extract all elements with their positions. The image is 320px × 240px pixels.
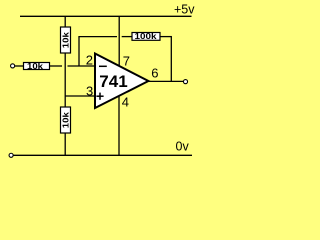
wire R3 to right corner — [160, 36, 172, 38]
wire feedback horizontal left of pin7 crossing — [78, 36, 117, 38]
wire feedback horizontal right of crossing to R3 — [122, 36, 133, 38]
resistor R4 10k (vertical, bottom) — [61, 107, 71, 133]
svg-text:7: 7 — [123, 53, 130, 68]
terminal input (top-left circle) — [11, 64, 15, 68]
op-amp U1 741 triangle — [95, 54, 148, 109]
wire feedback right vertical down to output — [170, 37, 172, 82]
op-amp minus sign (pin 2 inverting) — [99, 65, 107, 67]
resistor R2 10k (horizontal input) — [24, 62, 50, 71]
wire pin 4 vertical to 0v rail — [118, 96, 120, 156]
wire crossing to op-amp pin 2 — [68, 65, 95, 67]
svg-text:10k: 10k — [62, 112, 71, 129]
svg-text:10k: 10k — [62, 32, 71, 49]
svg-text:4: 4 — [122, 95, 129, 110]
resistor R3 100k (feedback) — [132, 32, 160, 41]
wire pin 7 vertical from +5v rail — [118, 16, 120, 66]
svg-text:2: 2 — [86, 53, 93, 68]
terminal ground (bottom-left circle) — [9, 153, 13, 157]
resistor R1 10k (vertical, top) — [61, 27, 71, 53]
svg-text:741: 741 — [99, 72, 127, 91]
terminal output (right circle) — [183, 80, 187, 84]
svg-text:6: 6 — [151, 66, 158, 81]
op-amp plus sign (pin 3 non-inverting) — [96, 95, 103, 97]
wire output from op-amp to terminal — [148, 80, 183, 82]
wire pin 3 from divider — [65, 95, 95, 97]
wire 0v bottom rail — [13, 154, 192, 156]
wire input terminal to R2 — [15, 65, 24, 67]
wire feedback left vertical — [78, 37, 80, 67]
wire R2 to divider crossing (left part, breaks at vertical) — [50, 65, 63, 67]
wire from top rail down to R1 — [64, 16, 66, 27]
wire R4 bottom to 0v rail — [64, 133, 66, 155]
svg-text:0v: 0v — [176, 140, 190, 154]
svg-text:10k: 10k — [27, 62, 44, 71]
svg-text:3: 3 — [86, 83, 93, 98]
wire divider vertical (R1 bottom to R4 top) — [64, 53, 66, 108]
wire +5v top rail — [20, 15, 192, 17]
svg-text:100k: 100k — [135, 32, 158, 41]
svg-text:+5v: +5v — [174, 3, 195, 17]
